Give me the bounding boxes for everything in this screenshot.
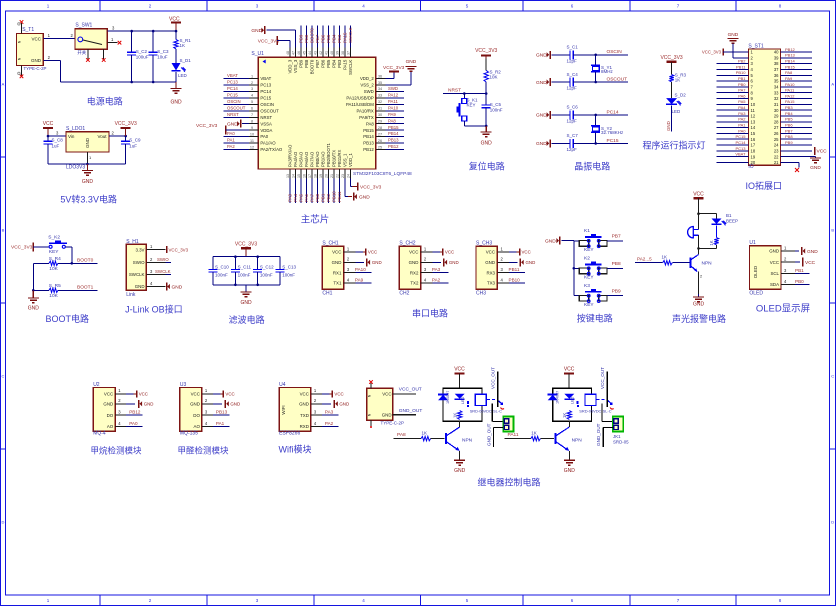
svg-text:SWD: SWD (388, 86, 398, 91)
svg-text:GND: GND (526, 260, 536, 265)
svg-text:PB7: PB7 (785, 128, 793, 133)
svg-text:PA0: PA0 (129, 421, 138, 426)
svg-text:VCC: VCC (693, 192, 704, 198)
svg-text:J-Link OB接口: J-Link OB接口 (125, 304, 183, 315)
svg-text:SWCLK: SWCLK (155, 269, 171, 274)
svg-text:DO: DO (193, 413, 200, 418)
label JK1 SRD-05 (613, 434, 629, 445)
svg-text:15: 15 (751, 131, 756, 136)
svg-text:PA2/TX/AO: PA2/TX/AO (260, 147, 283, 152)
svg-text:31: 31 (378, 107, 382, 111)
svg-text:PA12: PA12 (388, 92, 399, 97)
wire moving contact to connector (cell1) (492, 404, 503, 422)
svg-text:VBAT: VBAT (227, 73, 238, 78)
svg-text:TXD: TXD (300, 413, 309, 418)
ground (BOOT) (28, 290, 40, 311)
transistor Q1 NPN (relay1) (446, 421, 473, 460)
svg-text:PA6/AO: PA6/AO (304, 151, 309, 167)
resistor R3 1K (669, 73, 686, 99)
net SWCLK (J-Link pin3) (155, 269, 171, 275)
svg-text:GND: GND (807, 249, 818, 255)
svg-text:VCC: VCC (817, 149, 828, 155)
capacitor C8 1uF (44, 136, 64, 164)
svg-text:VCC_3V3: VCC_3V3 (383, 65, 405, 71)
wire LDO Vout to VCC_3V3 (109, 131, 127, 138)
svg-text:DO: DO (107, 413, 114, 418)
svg-text:VCC: VCC (300, 391, 309, 396)
resistor R2 10K (484, 70, 501, 94)
svg-text:PA9: PA9 (355, 278, 364, 283)
svg-text:TX3: TX3 (487, 281, 496, 286)
svg-text:43: 43 (313, 51, 317, 55)
power VCC_3V3 at VDD_2 (383, 65, 405, 79)
svg-text:PA10: PA10 (388, 105, 399, 110)
svg-text:PA0: PA0 (227, 131, 235, 136)
svg-text:GND: GND (454, 468, 466, 474)
svg-text:PB10: PB10 (332, 191, 337, 202)
power VCC (relay cell1) (454, 366, 465, 388)
svg-text:SWIO: SWIO (157, 257, 169, 262)
svg-text:8MHz: 8MHz (601, 69, 614, 74)
connector CH1 serial (322, 241, 355, 297)
svg-text:VCC_3V3: VCC_3V3 (115, 121, 137, 127)
svg-text:GND: GND (481, 141, 493, 147)
svg-text:16: 16 (302, 174, 306, 178)
svg-text:S_R5: S_R5 (49, 283, 61, 289)
relay coil SRD-05VDC-SL-C (cell1) (470, 394, 502, 414)
svg-text:K1: K1 (584, 228, 590, 234)
svg-text:PB3: PB3 (337, 59, 342, 68)
svg-text:PB7: PB7 (612, 234, 621, 240)
svg-text:GND: GND (382, 412, 392, 417)
svg-text:25: 25 (378, 145, 382, 149)
svg-text:GND: GND (564, 468, 576, 474)
svg-text:PA9/TX: PA9/TX (359, 115, 374, 120)
svg-text:33: 33 (774, 90, 779, 95)
svg-text:PB11: PB11 (509, 267, 520, 272)
svg-text:PA8: PA8 (366, 121, 374, 126)
svg-text:BOOT0: BOOT0 (310, 59, 315, 74)
IO header right wires (780, 47, 812, 157)
svg-text:34: 34 (378, 87, 382, 91)
svg-text:GND: GND (359, 195, 370, 201)
svg-text:GND: GND (406, 59, 417, 65)
svg-text:KEY: KEY (584, 302, 594, 308)
LED (relay cell2) (564, 394, 579, 407)
svg-text:VCC_3V3: VCC_3V3 (11, 245, 33, 251)
power VCC_3V3 (BOOT) (11, 242, 49, 251)
svg-text:PB2/BOOT1: PB2/BOOT1 (326, 143, 331, 167)
svg-text:23: 23 (341, 174, 345, 178)
svg-text:PA2...5: PA2...5 (637, 256, 652, 261)
resistor 1K (relay cell2) (562, 411, 572, 420)
svg-text:4: 4 (251, 94, 253, 98)
svg-text:D: D (2, 520, 5, 525)
filter top rail wire (213, 256, 280, 258)
svg-text:6: 6 (251, 107, 253, 111)
svg-text:PA11/USB/DM: PA11/USB/DM (346, 102, 374, 107)
svg-text:VCC: VCC (225, 391, 234, 396)
svg-text:GND: GND (190, 401, 200, 406)
svg-text:GND: GND (536, 53, 547, 59)
svg-text:GND: GND (170, 100, 182, 106)
svg-text:PA10: PA10 (785, 82, 795, 87)
svg-text:16: 16 (751, 137, 756, 142)
svg-text:1K: 1K (709, 240, 714, 245)
capacitor C3 10uF (149, 30, 169, 83)
svg-text:PA11: PA11 (508, 432, 519, 438)
MCU top pins (286, 48, 353, 75)
svg-text:PB1/AO: PB1/AO (321, 151, 326, 167)
svg-text:PB12: PB12 (363, 147, 374, 152)
svg-text:PC14: PC14 (260, 89, 271, 94)
ground (IO header pin22) (810, 157, 821, 171)
svg-text:VDD_3: VDD_3 (288, 59, 293, 73)
svg-text:程序运行指示灯: 程序运行指示灯 (642, 139, 705, 150)
wire moving contact to connector (cell2) (602, 404, 613, 422)
svg-text:PA15: PA15 (785, 99, 795, 104)
svg-text:VCC_3V3: VCC_3V3 (702, 50, 722, 55)
net PB1 (OLED pin3) (795, 268, 809, 274)
svg-text:PA1/AO: PA1/AO (260, 141, 276, 146)
svg-text:GND: GND (409, 260, 419, 265)
relay coil SRD-05VDC-SL-C (cell2) (579, 394, 611, 414)
svg-text:PC14: PC14 (735, 140, 746, 145)
switch SW1 (75, 23, 121, 62)
svg-text:24: 24 (774, 143, 779, 148)
svg-text:27: 27 (774, 125, 779, 130)
connector U1 OLED (749, 240, 795, 296)
svg-text:PA11: PA11 (785, 88, 795, 93)
svg-text:声光报警电路: 声光报警电路 (672, 313, 726, 324)
svg-text:C: C (2, 374, 5, 379)
connector CH2 serial (399, 241, 432, 297)
power VCC (OLED pin2) (795, 258, 816, 267)
svg-text:PC13: PC13 (735, 146, 746, 151)
svg-text:17: 17 (308, 174, 312, 178)
svg-text:S_D1: S_D1 (180, 58, 192, 63)
svg-text:GND: GND (536, 80, 547, 86)
wire GND to pin2 (733, 43, 749, 58)
svg-text:按键电路: 按键电路 (577, 313, 613, 324)
svg-text:PA0: PA0 (260, 134, 268, 139)
svg-text:S_U1: S_U1 (251, 51, 264, 57)
svg-text:VCC: VCC (368, 250, 377, 255)
svg-text:1N4007: 1N4007 (446, 391, 450, 404)
net GND_OUT wire (cell2) (596, 423, 613, 447)
MCU right pins (346, 74, 385, 152)
LED B1 BEEP branch (712, 213, 739, 238)
svg-text:SRD-05: SRD-05 (613, 439, 629, 444)
svg-text:31: 31 (774, 102, 779, 107)
svg-text:PB15: PB15 (363, 128, 374, 133)
svg-text:Vin: Vin (68, 134, 75, 139)
svg-text:VCC_3V3: VCC_3V3 (258, 38, 280, 44)
capacitor C4 12pF with OSCOUT net (536, 72, 628, 91)
power VCC_3V3 at VDD_1 (351, 179, 382, 191)
svg-text:VCC: VCC (43, 121, 54, 127)
ground (reset) (481, 126, 493, 147)
svg-text:PB5: PB5 (785, 117, 793, 122)
push button K3 KEY (keys) net PB9 (574, 283, 623, 308)
capacitor C10 100nF (208, 257, 229, 285)
svg-text:30: 30 (378, 113, 382, 117)
resistor 1K (relay1 base) (394, 431, 445, 441)
svg-text:SDA: SDA (770, 282, 779, 287)
svg-text:JK1: JK1 (613, 434, 621, 439)
svg-text:PA6: PA6 (304, 193, 309, 202)
svg-text:23: 23 (774, 148, 779, 153)
svg-text:VSSA: VSSA (260, 121, 272, 126)
svg-text:GND: GND (135, 284, 145, 289)
svg-text:35: 35 (378, 81, 382, 85)
connector H1 J-Link (126, 239, 165, 298)
svg-text:GND: GND (536, 113, 547, 119)
push button K1 KEY (keys) net PB7 (574, 228, 623, 253)
svg-text:甲醛检测模块: 甲醛检测模块 (177, 445, 229, 455)
svg-text:LED: LED (178, 73, 188, 78)
MCU left net wires (224, 73, 249, 149)
svg-text:10uF: 10uF (157, 55, 168, 60)
capacitor C13 100nF (276, 257, 297, 285)
svg-text:PB7: PB7 (315, 59, 320, 68)
svg-text:PB9: PB9 (299, 34, 304, 43)
svg-text:电源电路: 电源电路 (87, 95, 123, 106)
push button K2 KEY (48, 235, 72, 264)
svg-text:18: 18 (751, 148, 756, 153)
svg-text:PC14: PC14 (227, 86, 238, 91)
svg-text:PB1: PB1 (321, 193, 326, 202)
svg-text:PA10/RX: PA10/RX (356, 108, 373, 113)
power VCC_3V3 (filter) (235, 241, 257, 256)
svg-text:25: 25 (774, 137, 779, 142)
svg-text:VCC: VCC (454, 366, 465, 372)
svg-text:PB13: PB13 (785, 53, 796, 58)
capacitor C9 1uF (121, 136, 141, 164)
transistor Q2 NPN (relay2) (556, 421, 583, 460)
net SWIO (J-Link pin2) (157, 257, 171, 263)
svg-text:19: 19 (319, 174, 323, 178)
svg-text:VDDA: VDDA (260, 128, 272, 133)
svg-text:17: 17 (751, 143, 756, 148)
svg-text:SWCLK: SWCLK (348, 27, 353, 43)
svg-text:BOOT0: BOOT0 (310, 28, 315, 43)
module U2 MQ-4 (93, 382, 126, 437)
svg-text:OSCIN: OSCIN (260, 102, 274, 107)
svg-text:22: 22 (774, 154, 779, 159)
svg-text:S_SW1: S_SW1 (75, 23, 92, 29)
resistor R5 10K (32, 263, 98, 299)
svg-text:SWD: SWD (364, 89, 374, 94)
svg-text:PA9: PA9 (388, 112, 396, 117)
svg-text:SWCLK: SWCLK (129, 272, 145, 277)
ground (relay2) (564, 460, 576, 474)
capacitor C5 100nF (482, 94, 503, 128)
MCU right net wires (385, 86, 404, 150)
svg-text:44: 44 (308, 51, 312, 55)
svg-text:MQ-4: MQ-4 (93, 431, 106, 437)
svg-text:PB5: PB5 (326, 59, 331, 68)
svg-text:VCC_OUT: VCC_OUT (491, 367, 496, 389)
power VCC_3V3 at VDD_3 (258, 36, 290, 48)
svg-text:PA7: PA7 (738, 88, 746, 93)
svg-text:S_C13: S_C13 (282, 264, 296, 269)
svg-text:Vout: Vout (97, 134, 107, 139)
svg-text:GND: GND (251, 28, 262, 34)
svg-text:PA12: PA12 (785, 93, 795, 98)
svg-text:PB14: PB14 (363, 134, 374, 139)
svg-text:K2: K2 (584, 256, 590, 262)
svg-text:B1: B1 (726, 213, 732, 218)
power VCC (power circuit) (169, 17, 181, 33)
svg-text:LED: LED (672, 109, 682, 114)
svg-text:VCC_3V3: VCC_3V3 (660, 55, 682, 61)
svg-text:42: 42 (319, 51, 323, 55)
svg-text:29: 29 (774, 114, 779, 119)
module U3 MQ-135 (180, 382, 213, 437)
svg-text:PA7/AO: PA7/AO (310, 151, 315, 167)
svg-text:B: B (831, 228, 834, 233)
svg-text:PB0: PB0 (738, 82, 746, 87)
resistor R1 1K (174, 31, 191, 49)
svg-text:S_D2: S_D2 (675, 93, 687, 98)
connector JK socket (cell1) (503, 416, 513, 431)
svg-text:GND_OUT: GND_OUT (486, 423, 491, 446)
ground GND at VSS_1 (345, 179, 370, 201)
wire alarm collector node (697, 245, 716, 250)
svg-text:PA3: PA3 (738, 111, 746, 116)
svg-text:PB15: PB15 (388, 125, 399, 130)
svg-text:S_C5: S_C5 (490, 102, 502, 107)
svg-text:13: 13 (286, 174, 290, 178)
svg-text:BEEP: BEEP (726, 219, 738, 224)
svg-text:PB9: PB9 (299, 59, 304, 68)
power VCC_3V3 (run LED) (660, 55, 682, 75)
svg-text:PB6: PB6 (321, 34, 326, 43)
wire T1 VCC to SW1 (43, 33, 75, 39)
svg-text:1K: 1K (422, 431, 428, 436)
svg-text:PA2: PA2 (738, 117, 746, 122)
svg-text:VSS_3: VSS_3 (293, 59, 298, 73)
svg-text:100nF: 100nF (260, 272, 273, 277)
svg-text:PB13: PB13 (363, 141, 374, 146)
svg-text:S_H1: S_H1 (126, 239, 139, 245)
svg-text:27: 27 (378, 132, 382, 136)
svg-text:S_CH1: S_CH1 (322, 241, 338, 247)
svg-text:PA5: PA5 (299, 193, 304, 202)
svg-text:A: A (831, 82, 834, 87)
svg-text:9: 9 (251, 126, 253, 130)
svg-text:SWIO: SWIO (133, 260, 145, 265)
svg-text:1K: 1K (180, 43, 186, 48)
crystal Y1 8MHz (591, 54, 613, 84)
svg-text:复位电路: 复位电路 (469, 161, 505, 172)
svg-text:PB1: PB1 (795, 268, 804, 273)
svg-text:11: 11 (751, 108, 756, 113)
svg-text:VCC: VCC (382, 392, 391, 397)
connector T2 TYPE-C-2P (relay power) (367, 380, 404, 428)
svg-text:1: 1 (251, 74, 253, 78)
ground (relay1) (454, 460, 466, 474)
svg-text:D: D (831, 520, 834, 525)
svg-text:OSCOUT: OSCOUT (607, 76, 628, 82)
svg-text:主芯片: 主芯片 (301, 214, 330, 226)
svg-text:3: 3 (251, 87, 253, 91)
svg-text:GND: GND (85, 137, 90, 148)
MCU top net wires (299, 25, 354, 47)
svg-text:OLED: OLED (749, 291, 763, 297)
svg-text:GND: GND (227, 122, 238, 128)
svg-text:26: 26 (378, 139, 382, 143)
svg-text:GND: GND (545, 238, 556, 244)
connector T1 TYPE-C-2P (17, 20, 47, 78)
svg-text:S_C12: S_C12 (260, 264, 274, 269)
svg-text:PB8: PB8 (304, 34, 309, 43)
svg-text:BOOT1: BOOT1 (77, 285, 94, 291)
MCU bottom pins (286, 143, 353, 179)
svg-text:K3: K3 (584, 283, 590, 289)
svg-text:VDD_2: VDD_2 (360, 76, 374, 81)
svg-text:13: 13 (751, 119, 756, 124)
svg-text:VCC_OUT: VCC_OUT (600, 367, 605, 389)
power VCC (alarm) (693, 192, 704, 214)
LED D1 (172, 49, 192, 82)
net VCC_OUT wire (393, 386, 422, 394)
svg-text:VCC: VCC (332, 250, 341, 255)
svg-text:PB11: PB11 (736, 64, 746, 69)
svg-text:PA1: PA1 (738, 123, 746, 128)
svg-text:ESP8266: ESP8266 (279, 431, 300, 437)
svg-text:PA2: PA2 (227, 144, 235, 149)
svg-text:GND: GND (31, 58, 42, 63)
wire alarm top node (697, 212, 716, 218)
IC U1 STM32F103C8T6 MCU body (251, 51, 412, 177)
svg-text:PB11: PB11 (337, 191, 342, 202)
wire LDO ground rail (48, 152, 126, 165)
svg-text:100nF: 100nF (490, 108, 503, 113)
wire SW1 pin3 to VCC rail (107, 26, 176, 32)
svg-text:GND: GND (144, 401, 154, 406)
connector JK socket (cell2) (613, 416, 623, 431)
svg-text:PB6: PB6 (321, 59, 326, 68)
svg-text:KEY: KEY (49, 249, 59, 255)
svg-text:OSCOUT: OSCOUT (227, 105, 246, 110)
svg-text:GND_OUT: GND_OUT (596, 423, 601, 446)
svg-text:GND: GND (172, 284, 183, 290)
svg-text:1K: 1K (675, 78, 681, 83)
wire VCC to LDO Vin (47, 131, 66, 138)
svg-text:S_CH3: S_CH3 (476, 241, 492, 247)
svg-text:PB0/AO: PB0/AO (315, 151, 320, 167)
svg-text:12pF: 12pF (567, 118, 578, 123)
svg-text:36: 36 (774, 73, 779, 78)
svg-text:OLED显示屏: OLED显示屏 (756, 304, 810, 315)
svg-text:PB13: PB13 (388, 138, 399, 143)
svg-text:VCC: VCC (104, 391, 113, 396)
svg-text:PC13: PC13 (227, 80, 238, 85)
svg-text:PB1: PB1 (738, 76, 746, 81)
svg-text:AO: AO (107, 424, 114, 429)
svg-text:KEY: KEY (584, 275, 594, 281)
svg-text:VCC: VCC (139, 391, 148, 396)
svg-text:19: 19 (751, 154, 756, 159)
svg-text:41: 41 (324, 51, 328, 55)
svg-text:PA0: PA0 (738, 128, 746, 133)
resistor 1K (alarm LED) (709, 238, 719, 246)
svg-text:OSCIN: OSCIN (607, 49, 623, 55)
svg-text:GND: GND (693, 302, 705, 308)
svg-text:15: 15 (297, 174, 301, 178)
